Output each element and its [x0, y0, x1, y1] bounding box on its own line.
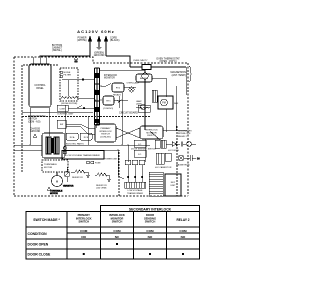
label BOTTOM CABINET	[52, 44, 63, 52]
svg-text:SWITCH: SWITCH	[145, 220, 156, 224]
label HV transformer	[127, 189, 144, 195]
row condition	[28, 232, 48, 236]
svg-text:SWITCH MADE *: SWITCH MADE *	[33, 218, 60, 222]
door assembly inner dashed boundary	[22, 65, 58, 172]
secondary interlock relay label	[178, 130, 192, 138]
svg-text:RY-B: RY-B	[84, 137, 89, 139]
svg-text:INTERLOCK: INTERLOCK	[99, 131, 112, 133]
svg-text:H.V. CAPACITOR: H.V. CAPACITOR	[155, 166, 172, 169]
svg-text:GROUND: GROUND	[30, 131, 41, 133]
crossed wires to monitor switch	[116, 128, 140, 138]
svg-text:(BLACK): (BLACK)	[110, 39, 120, 42]
primary interlock switch box	[95, 124, 116, 142]
wire right rail to magnetron	[185, 67, 187, 95]
svg-text:RELAY2: RELAY2	[113, 94, 122, 97]
low voltage transformer long box	[62, 151, 104, 160]
inductor coil in noise filter	[61, 97, 78, 99]
svg-text:SWITCH: SWITCH	[112, 220, 123, 224]
magnetron brace and label	[170, 66, 191, 82]
table vertical lines	[67, 212, 167, 260]
label control unit bottom	[57, 114, 74, 116]
svg-text:(WHITE): (WHITE)	[77, 39, 86, 42]
svg-text:SECONDARY INTERLOCK: SECONDARY INTERLOCK	[129, 207, 172, 211]
svg-text:DOOR OPEN: DOOR OPEN	[28, 242, 49, 246]
svg-text:LOW VOLTAGE: LOW VOLTAGE	[128, 189, 143, 192]
label electric parts	[66, 143, 84, 146]
dashed divider power unit	[118, 152, 120, 196]
wire switch row to right cluster	[150, 131, 160, 140]
svg-text:RY1: RY1	[106, 101, 111, 103]
svg-text:INTERLOCK: INTERLOCK	[76, 216, 92, 220]
noise filter label	[64, 72, 72, 77]
svg-text:F.C.: F.C.	[138, 154, 142, 156]
svg-text:CONDITION: CONDITION	[28, 232, 48, 236]
svg-text:NO: NO	[181, 235, 186, 239]
svg-text:(40W): (40W)	[136, 104, 142, 106]
relay RY1 box	[103, 96, 114, 105]
svg-text:NO: NO	[81, 235, 86, 239]
circuit board dashed divider	[22, 116, 150, 118]
wires ladder to switch row	[95, 125, 97, 128]
power cord terminal N (arrow)	[104, 36, 107, 56]
header switch made	[33, 218, 60, 222]
HV transformer coil hatched	[125, 182, 146, 188]
svg-text:COM: COM	[179, 229, 187, 233]
svg-text:VARISTOR: VARISTOR	[63, 185, 74, 188]
label relay2 annotation	[103, 94, 122, 111]
svg-text:(COM-NO): (COM-NO)	[100, 136, 111, 138]
svg-text:SW: SW	[60, 124, 63, 126]
wire vertical x88	[87, 117, 89, 145]
svg-text:PANEL: PANEL	[36, 87, 44, 90]
svg-text:OVEN CAVITY: OVEN CAVITY	[133, 59, 148, 62]
svg-text:CONTROL: CONTROL	[34, 85, 46, 87]
table outer frame	[26, 212, 200, 260]
relay box RY-B	[80, 133, 92, 140]
lamp symbol	[129, 87, 134, 92]
cabinet boundary dashed right	[187, 63, 189, 196]
turntable motor circle	[52, 172, 63, 187]
label oven thermostat	[156, 58, 180, 64]
wire board bus y112	[22, 108, 95, 112]
label turntable motor	[44, 163, 57, 169]
label (BLACK)	[110, 37, 120, 43]
HV transformer terminal strip	[125, 160, 145, 182]
chassis ground triangle near noise filter	[75, 56, 78, 63]
svg-text:SWITCH: SWITCH	[28, 119, 37, 121]
oven thermostat symbol	[130, 65, 186, 70]
relay box RY3	[136, 74, 152, 82]
svg-text:DOOR: DOOR	[146, 213, 154, 217]
condition no row	[81, 235, 185, 239]
label HV capacitor	[155, 164, 190, 170]
wire left drops	[30, 57, 65, 145]
heater coil box	[138, 105, 150, 112]
bullet door close primary	[83, 253, 85, 255]
wire vertical center drop	[122, 92, 166, 145]
cabinet boundary dashed bottom	[14, 195, 188, 197]
control panel box	[29, 64, 51, 107]
label control unit	[61, 103, 78, 105]
svg-text:CHASSIS: CHASSIS	[30, 128, 41, 131]
svg-text:RELAY 2: RELAY 2	[176, 218, 189, 222]
ground triangle under motor	[48, 187, 63, 195]
svg-text:FUSE: FUSE	[95, 163, 101, 165]
label oven cavity	[133, 59, 148, 62]
table horizontal lines	[26, 227, 200, 249]
svg-text:INTERLOCK: INTERLOCK	[145, 130, 158, 132]
svg-text:AC120V 60Hz: AC120V 60Hz	[77, 29, 115, 34]
svg-text:F.C.: F.C.	[138, 144, 142, 146]
svg-text:(COM-NO): (COM-NO)	[103, 108, 113, 110]
svg-text:(ANT. TEMP.): (ANT. TEMP.)	[172, 74, 187, 77]
cabinet boundary dashed left	[13, 57, 15, 196]
bullet door open monitor	[116, 243, 118, 245]
label lamp 2	[136, 100, 142, 106]
svg-text:(METAL): (METAL)	[52, 49, 62, 52]
header interlock monitor switch	[109, 213, 125, 224]
svg-text:SECONDARY: SECONDARY	[178, 130, 192, 133]
resistor R1 zigzag	[71, 170, 88, 179]
label low voltage transformer left	[28, 116, 46, 123]
condition com row	[80, 229, 187, 233]
switch symbol on board left	[72, 106, 85, 110]
junction dots on ladder	[29, 85, 146, 151]
svg-text:TURNTABLE: TURNTABLE	[50, 190, 63, 193]
svg-text:OVEN LAMP: OVEN LAMP	[127, 82, 140, 85]
small box lower-left of board	[57, 120, 66, 128]
diode D1 on board	[118, 96, 121, 108]
label circuit board	[119, 112, 138, 115]
svg-text:SENSING: SENSING	[144, 216, 156, 220]
fan motor connector hatch	[152, 90, 157, 102]
switch symbol S1	[101, 84, 111, 87]
svg-text:INTERLOCK: INTERLOCK	[178, 133, 191, 135]
row door open	[28, 242, 49, 246]
svg-text:PRIMARY: PRIMARY	[101, 127, 111, 130]
key unit box	[165, 174, 181, 196]
svg-text:FM: FM	[162, 102, 165, 105]
label door sensing switch	[131, 149, 156, 151]
wire bus y150	[14, 149, 120, 151]
header door sensing switch	[144, 213, 156, 224]
fan motor box FM	[158, 96, 173, 109]
svg-text:(+): (+)	[197, 158, 200, 160]
label interlock monitor	[104, 75, 118, 80]
svg-text:KEY: KEY	[171, 182, 176, 184]
label fan motor	[174, 102, 179, 105]
svg-text:RY2: RY2	[116, 88, 121, 90]
label HV diode	[168, 150, 180, 152]
svg-text:NC: NC	[115, 235, 120, 239]
turntable motor dashed box	[42, 160, 68, 172]
svg-text:GROUND: GROUND	[94, 54, 105, 57]
svg-text:DOOR CLOSE: DOOR CLOSE	[28, 252, 52, 256]
wire bus y145	[14, 144, 150, 146]
wire from small box to primary switch	[66, 124, 95, 134]
svg-text:RELAY 2: RELAY 2	[178, 135, 188, 138]
svg-text:(150 OHM): (150 OHM)	[96, 188, 107, 190]
svg-text:M: M	[56, 180, 59, 184]
cabinet boundary dashed top-left	[14, 57, 188, 63]
svg-text:NO: NO	[148, 235, 153, 239]
inner dashed vertical right	[176, 126, 178, 196]
wire verticals at cabinet top	[33, 57, 46, 64]
magnetron filter box FB1	[134, 140, 146, 147]
svg-text:SWITCH: SWITCH	[78, 220, 89, 224]
wire: neutral lead to cabinet	[40, 56, 90, 57]
svg-text:INTERLOCK: INTERLOCK	[109, 213, 125, 217]
wire noise filter to connector	[62, 79, 95, 99]
svg-text:COM: COM	[113, 229, 121, 233]
svg-text:COM: COM	[146, 229, 154, 233]
svg-text:MOTOR: MOTOR	[44, 167, 53, 169]
relay RY2 box	[112, 83, 124, 92]
svg-text:UNIT: UNIT	[170, 185, 176, 187]
svg-text:SWITCH: SWITCH	[101, 134, 110, 136]
svg-text:(NOISE FILTER): (NOISE FILTER)	[61, 103, 78, 105]
fuse symbol	[87, 161, 102, 165]
connector pin circle P1	[60, 71, 63, 74]
component row diode-cap right	[155, 140, 196, 148]
bullet door close relay2	[182, 253, 184, 255]
svg-text:DOOR SENSING: DOOR SENSING	[28, 116, 46, 118]
wire relay1 to fan	[152, 78, 166, 97]
svg-text:H.V. DIODE: H.V. DIODE	[168, 150, 180, 152]
svg-text:LAMP: LAMP	[136, 100, 142, 103]
thermal cutout circle	[142, 70, 148, 131]
ground symbol under green lead	[97, 47, 102, 50]
connector pin circle P2	[60, 75, 63, 78]
varistor	[63, 167, 74, 188]
svg-text:LOW VOLTAGE TRANSFORMER: LOW VOLTAGE TRANSFORMER	[66, 154, 99, 157]
title AC120V 60Hz	[77, 29, 115, 34]
wire relay row	[114, 87, 136, 100]
svg-text:TRANSFORMER: TRANSFORMER	[127, 192, 144, 195]
svg-text:FILTER: FILTER	[64, 75, 72, 77]
svg-text:RESISTOR: RESISTOR	[72, 177, 83, 179]
svg-text:POWER UNIT: POWER UNIT	[104, 159, 118, 161]
label GREEN/GROUND	[94, 52, 105, 58]
svg-text:CONTROL UNIT: CONTROL UNIT	[57, 114, 74, 116]
resistor R2 with ground	[95, 173, 110, 190]
svg-text:MOTOR: MOTOR	[50, 193, 58, 195]
buzzer circle right of board	[136, 105, 150, 110]
connector ladder CN-A	[94, 68, 100, 125]
ribbon connector ladder	[149, 172, 163, 196]
HV capacitor cluster	[156, 153, 200, 164]
power cord terminal L (arrow)	[88, 36, 91, 56]
wire drops to HV section	[118, 139, 145, 179]
header relay 2	[176, 218, 189, 222]
label chassis ground	[30, 128, 41, 138]
svg-text:RELAY1: RELAY1	[140, 77, 149, 80]
wire board top rail	[100, 70, 145, 72]
svg-text:MAGNETRON: MAGNETRON	[176, 164, 190, 167]
connector pins circles	[63, 146, 66, 154]
label (WHITE)	[77, 37, 87, 43]
bullet door close sensing	[149, 253, 151, 255]
svg-text:TURNTABLE: TURNTABLE	[44, 163, 57, 166]
power cord terminal GND (arrow)	[97, 36, 100, 47]
low voltage transformer box	[42, 133, 65, 158]
magnetron filter box FB2	[134, 150, 146, 157]
table banner secondary interlock	[101, 206, 200, 212]
row door close	[28, 252, 52, 256]
relay box RY-A	[66, 133, 78, 140]
svg-text:PRIMARY: PRIMARY	[78, 213, 91, 217]
svg-text:RY-A: RY-A	[70, 136, 75, 139]
svg-text:(A): (A)	[75, 60, 78, 63]
wire monitor switch to right rail	[163, 86, 187, 131]
svg-text:COM: COM	[80, 229, 88, 233]
svg-text:MONITOR: MONITOR	[111, 216, 124, 220]
svg-text:FAN: FAN	[174, 102, 179, 105]
wire: line lead to fuse	[106, 56, 130, 67]
ground triangle under resistor	[87, 172, 90, 178]
svg-text:ELECTRIC PARTS: ELECTRIC PARTS	[66, 143, 84, 146]
oven lamp label block	[127, 82, 140, 85]
label power unit	[104, 159, 118, 161]
relay RY4 small box	[57, 105, 68, 111]
noise filter unit dashed box	[60, 68, 78, 101]
svg-text:(OPEN : 150°C): (OPEN : 150°C)	[159, 60, 176, 63]
svg-text:MONITOR: MONITOR	[104, 78, 115, 80]
header primary interlock switch	[76, 213, 92, 224]
interlock monitor switch box	[140, 126, 163, 139]
